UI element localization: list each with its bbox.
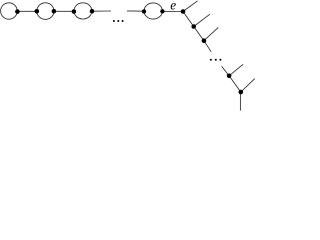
- chain stub below v3: [204, 41, 211, 52]
- vertex v2: [191, 24, 196, 29]
- cycle circle 2: [37, 3, 54, 20]
- vertex v4: [227, 74, 232, 79]
- chain edge v4-v5: [229, 76, 241, 92]
- pendant edge at v3: [204, 27, 218, 40]
- ellipsis 1 dot c: [122, 20, 124, 22]
- wire circle3 to gap: [92, 10, 111, 12]
- vertex v3: [202, 38, 207, 43]
- vertex v5: [239, 90, 244, 95]
- vertical tail below v5: [239, 92, 241, 110]
- pendant edge at v4: [229, 64, 243, 76]
- vertex dot right of circle3: [90, 9, 95, 14]
- vertex dot right of circle1: [15, 9, 20, 14]
- vertex dot right of circle4: [160, 9, 164, 13]
- vertex dot left of circle2: [35, 9, 40, 14]
- wire circle2-circle3: [54, 10, 74, 12]
- pendant edge at v2: [194, 14, 210, 26]
- chain stub above v4: [222, 66, 230, 76]
- pendant edge at v5: [241, 79, 255, 92]
- ellipsis 2 dot c: [219, 59, 221, 61]
- chain edge v2-v3: [194, 27, 204, 41]
- cycle circle 4: [144, 3, 162, 19]
- wire circle1-circle2: [17, 10, 36, 12]
- chain edge v1-v2: [183, 12, 194, 27]
- vertex v1: [181, 9, 186, 14]
- ellipsis 2 dot b: [215, 59, 217, 61]
- cycle circle 3: [74, 3, 92, 19]
- vertex dot left of circle4: [142, 9, 146, 13]
- ellipsis 2 dot a: [210, 59, 212, 61]
- vertex dot left of circle3: [72, 9, 77, 14]
- pendant edge at v1: [183, 1, 198, 12]
- ellipsis 1 dot a: [113, 20, 115, 22]
- vertex dot right of circle2: [52, 9, 57, 14]
- svg-text:e: e: [170, 0, 176, 12]
- edge e wire: [162, 10, 183, 12]
- ellipsis 1 dot b: [117, 20, 119, 22]
- cycle circle 1: [1, 3, 18, 19]
- wire gap to circle4: [127, 10, 144, 12]
